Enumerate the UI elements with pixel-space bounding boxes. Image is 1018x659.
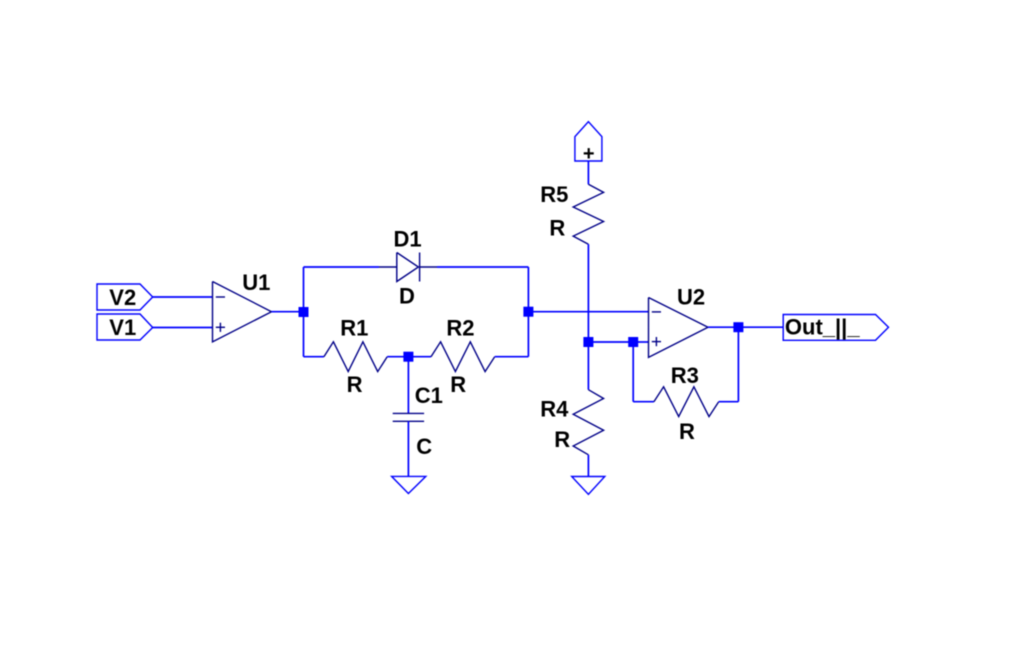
ground [572, 477, 605, 495]
wire diode cathode to right rail [437, 266, 528, 268]
node A vertical wire [303, 267, 305, 357]
resistor R4 [540, 390, 603, 455]
wire C1 to ground [407, 421, 409, 476]
junction node B [523, 307, 533, 317]
junction node D [583, 337, 593, 347]
wire node C to C1 [407, 357, 409, 414]
wire R2 to right rail [495, 356, 529, 358]
svg-text:U1: U1 [242, 270, 270, 295]
wire U1 output to node A [272, 311, 304, 313]
op-amp U2 [649, 284, 709, 357]
ground [392, 476, 426, 493]
wire U2 output to node F [708, 326, 738, 328]
svg-text:R4: R4 [540, 396, 569, 421]
svg-text:R: R [450, 372, 466, 397]
input flag V1 [97, 314, 153, 340]
wire node E to U2 non-inverting input [633, 341, 648, 343]
svg-text:R2: R2 [446, 315, 474, 340]
wire R3 to node F corner [719, 401, 739, 403]
svg-text:R: R [554, 427, 570, 452]
svg-text:D: D [399, 283, 415, 308]
output flag Out_||_ [783, 314, 888, 340]
junction node E [628, 337, 638, 347]
right rail vertical wire [527, 267, 529, 357]
input flag V2 [97, 284, 153, 310]
resistor R3 [654, 363, 719, 444]
resistor R5 [540, 182, 603, 244]
wire V2 to U1 inverting input [153, 296, 213, 298]
wire node F to output flag [738, 326, 783, 328]
wire up to node F [737, 327, 739, 402]
junction node A [299, 307, 309, 317]
junction node F [733, 322, 743, 332]
svg-text:C: C [416, 434, 432, 459]
svg-text:R3: R3 [671, 363, 699, 388]
wire to R3 [633, 401, 654, 403]
wire +V to R5 [587, 161, 589, 184]
svg-text:V2: V2 [109, 285, 136, 310]
wire R1 to node C [387, 356, 408, 358]
svg-text:R5: R5 [540, 182, 568, 207]
wire node E down [632, 342, 634, 402]
svg-text:D1: D1 [394, 227, 422, 252]
wire V1 to U1 non-inverting input [153, 327, 213, 329]
svg-text:R: R [549, 215, 565, 240]
wire node C to R2 [408, 356, 431, 358]
op-amp U1 [213, 270, 272, 342]
svg-text:V1: V1 [109, 315, 136, 340]
resistor R1 [324, 315, 387, 397]
svg-text:U2: U2 [677, 284, 705, 309]
wire node D to node E [588, 341, 633, 343]
svg-text:C1: C1 [415, 383, 443, 408]
wire node D to R4 [587, 342, 589, 390]
wire node B to U2 inverting input [528, 311, 648, 313]
svg-text:R: R [679, 419, 695, 444]
svg-text:Out_||_: Out_||_ [785, 314, 860, 339]
wire R5 to node D [587, 244, 589, 342]
power flag +V [575, 122, 602, 165]
wire top rail to diode anode [304, 266, 380, 268]
resistor R2 [431, 315, 495, 397]
svg-text:R: R [347, 372, 363, 397]
wire R4 to ground [587, 455, 589, 477]
junction node C [403, 352, 413, 362]
capacitor C1 [393, 383, 443, 459]
svg-text:R1: R1 [340, 315, 368, 340]
wire node A to R1 [304, 356, 324, 358]
diode D1 [379, 227, 437, 309]
